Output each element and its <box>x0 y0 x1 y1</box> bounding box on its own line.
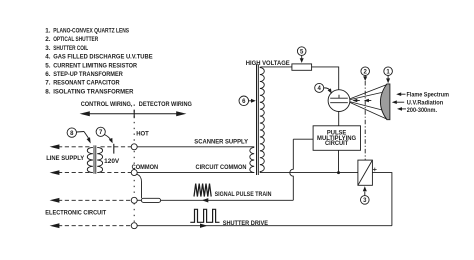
pulse multiplying circuit box <box>313 126 360 151</box>
UV tube (4) envelope <box>328 90 350 112</box>
callout 5 resistor <box>297 47 306 56</box>
svg-text:Flame Spectrum: Flame Spectrum <box>407 92 450 99</box>
light direction arrows <box>355 100 360 102</box>
svg-text:PLANO-CONVEX QUARTZ LENS: PLANO-CONVEX QUARTZ LENS <box>53 27 129 34</box>
isolating transformer (8) primary winding <box>87 147 93 172</box>
control/detector boundary dotted line <box>133 105 135 233</box>
node COMMON <box>131 170 137 176</box>
shutter drive waveform <box>190 209 219 222</box>
svg-text:STEP-UP TRANSFORMER: STEP-UP TRANSFORMER <box>53 71 123 78</box>
isolating transformer (8) secondary winding <box>97 147 102 172</box>
wire secondary top to resistor <box>260 66 292 69</box>
current limiting resistor (5) <box>292 64 312 70</box>
svg-text:U.V.Radiation: U.V.Radiation <box>407 100 444 107</box>
shutter coil (3) <box>358 160 373 185</box>
header double arrow <box>87 113 179 115</box>
resonant capacitor (7) <box>113 144 115 154</box>
svg-text:CURRENT LIMITING RESISTOR: CURRENT LIMITING RESISTOR <box>53 62 137 69</box>
svg-text:CONTROL WIRING,: CONTROL WIRING, <box>81 101 133 108</box>
signal pulse train waveform <box>194 184 211 197</box>
wire scanner supply <box>137 146 254 148</box>
optical shutter (2) line <box>364 81 366 160</box>
svg-text:ELECTRONIC CIRCUIT: ELECTRONIC CIRCUIT <box>45 210 106 217</box>
UV tube electrodes <box>330 97 348 99</box>
svg-text:7.: 7. <box>45 80 51 87</box>
callout 7 resonant capacitor <box>96 127 105 136</box>
coil polarity mark <box>373 168 377 172</box>
uv radiation arrow <box>395 101 405 103</box>
callout 8 isolating transformer <box>67 128 76 137</box>
svg-text:SHUTTER COIL: SHUTTER COIL <box>53 45 88 52</box>
wire secondary bottom / common rail <box>260 172 358 173</box>
step-up transformer (6) primary winding <box>250 147 254 172</box>
svg-text:2.: 2. <box>45 36 51 43</box>
svg-text:ISOLATING TRANSFORMER: ISOLATING TRANSFORMER <box>53 88 134 95</box>
node HOT <box>131 144 137 150</box>
legend list <box>45 27 152 95</box>
wire tube to pulse box <box>338 112 340 126</box>
wire resistor to tube <box>312 67 339 90</box>
callout 6 step-up transformer <box>239 96 249 106</box>
shutter flow arrow <box>200 224 208 228</box>
svg-text:DETECTOR WIRING: DETECTOR WIRING <box>139 101 192 108</box>
wire shutter drive <box>137 225 392 227</box>
callout 1 lens <box>384 67 393 76</box>
wire coil to shutter drive <box>372 173 392 226</box>
svg-text:HOT: HOT <box>136 130 149 137</box>
callout 4 uv tube <box>315 83 324 92</box>
signal flow arrow <box>202 198 209 202</box>
node signal <box>131 197 137 203</box>
svg-text:200-300nm.: 200-300nm. <box>407 107 437 114</box>
step-up transformer (6) secondary winding <box>260 68 264 172</box>
wire signal pulse train <box>161 199 294 201</box>
svg-text:6.: 6. <box>45 71 51 78</box>
flame spectrum arrow <box>399 93 406 95</box>
svg-text:OPTICAL SHUTTER: OPTICAL SHUTTER <box>53 36 98 43</box>
svg-text:SCANNER SUPPLY: SCANNER SUPPLY <box>194 138 248 145</box>
wire circuit common <box>137 172 254 174</box>
svg-text:4.: 4. <box>45 54 51 61</box>
svg-text:8.: 8. <box>45 88 51 95</box>
svg-text:5.: 5. <box>45 62 51 69</box>
splice capsule <box>141 198 160 202</box>
svg-text:CIRCUIT COMMON: CIRCUIT COMMON <box>196 164 247 171</box>
wire node to splice <box>137 199 142 201</box>
svg-text:COMMON: COMMON <box>132 164 159 171</box>
svg-text:1.: 1. <box>45 27 51 34</box>
svg-text:120V: 120V <box>104 159 119 165</box>
svg-text:CIRCUIT: CIRCUIT <box>325 141 349 147</box>
wavelength arrow <box>400 108 407 110</box>
svg-text:SIGNAL PULSE TRAIN: SIGNAL PULSE TRAIN <box>215 191 272 198</box>
left arrows / dashed field wires <box>50 144 60 149</box>
light cone <box>350 85 387 120</box>
step-up transformer (6) core <box>256 64 258 175</box>
isolating transformer (8) core <box>93 145 95 173</box>
wire common-to-signal branch <box>137 174 142 198</box>
wire signal feed with hop <box>290 139 293 200</box>
node shutter <box>131 223 137 229</box>
svg-text:3.: 3. <box>45 45 51 52</box>
junction dot <box>337 171 340 174</box>
svg-text:HIGH VOLTAGE: HIGH VOLTAGE <box>246 60 290 67</box>
wire pulse box to common rail <box>338 150 340 172</box>
svg-text:RESONANT CAPACITOR: RESONANT CAPACITOR <box>53 80 120 87</box>
callout 2 shutter <box>361 67 370 76</box>
svg-text:GAS FILLED DISCHARGE U.V.TUBE: GAS FILLED DISCHARGE U.V.TUBE <box>53 54 152 61</box>
svg-text:LINE SUPPLY: LINE SUPPLY <box>46 155 85 162</box>
quartz lens (1) <box>380 84 390 120</box>
callout 3 shutter coil <box>361 196 370 205</box>
wire pulse box left feed <box>293 138 313 140</box>
